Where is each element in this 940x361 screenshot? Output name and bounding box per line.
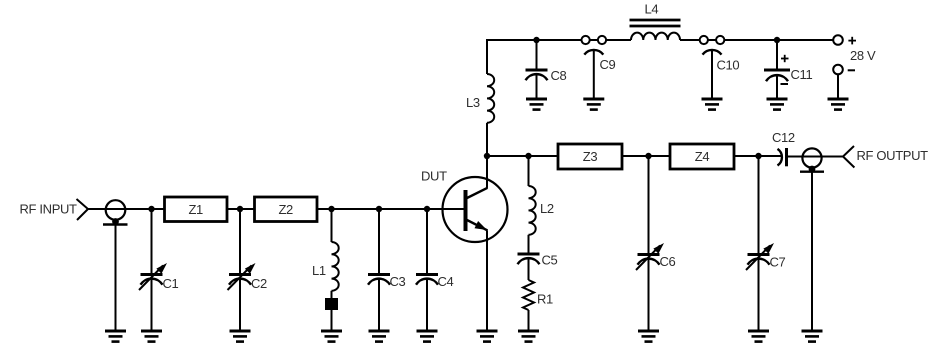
capacitor C12 (series blocking) [772,130,795,166]
wire: C7 branch lower [758,259,760,331]
impedance Z2 [255,197,318,222]
inductor L2 [529,186,554,235]
node: junction C11 / top rail [774,37,780,43]
inductor L4 with shield bars [630,2,681,41]
node: junction C4 branch [424,206,430,212]
node: junction C8 / top rail [533,37,539,43]
svg-text:C11: C11 [791,67,813,82]
ground: input probe [105,331,126,342]
svg-text:RF OUTPUT: RF OUTPUT [857,148,929,163]
ground: L1 [321,331,342,342]
capacitor C3 [368,274,406,289]
capacitor C7 (variable) [746,243,786,270]
node: junction L1 branch [328,206,334,212]
wire: output rail segment 2 [622,155,670,157]
svg-text:C2: C2 [251,276,267,291]
wire: C3 branch lower [378,279,380,331]
inductor L1 [312,242,339,291]
wire: C8 branch lower [536,74,538,99]
node: junction C7 branch [755,153,761,159]
ground: emitter [477,331,498,342]
node: junction C1 branch [148,206,154,212]
svg-text:C7: C7 [770,255,786,270]
capacitor C1 (variable) [139,263,179,291]
svg-text:RF INPUT: RF INPUT [20,201,78,216]
wire: C11 branch lower [776,76,778,99]
impedance Z1 [165,197,228,222]
node: junction L2 branch [525,153,531,159]
node: junction C6 branch [645,153,651,159]
svg-text:C8: C8 [551,68,567,83]
ferrite bead on L1 lead [325,298,338,310]
terminal: 28V negative [833,65,843,75]
wire: C2 branch upper [239,209,241,273]
svg-text:L3: L3 [466,95,480,110]
wire: ferrite bead to ground [331,310,333,331]
wire: C6 branch lower [648,259,650,331]
node: junction C2 branch [237,206,243,212]
ground: R1 [518,331,539,342]
capacitor C9 (feedthrough) [582,36,616,72]
wire: C1 branch upper [151,209,153,273]
ground: C7 [748,331,769,342]
capacitor C6 (variable) [636,243,676,270]
wire: C4 branch lower [426,279,428,331]
input probe (sampling connector) [103,200,128,225]
node: junction collector / L3 / output rail [484,153,490,159]
wire: C10 to ground [711,50,713,99]
svg-text:C9: C9 [600,57,616,72]
impedance Z3 [558,144,622,169]
node: junction C3 branch [376,206,382,212]
ground: C2 [230,331,251,342]
plus sign at positive terminal [848,37,856,45]
ground: output probe [802,331,823,342]
capacitor C4 [416,274,454,289]
svg-text:Z4: Z4 [695,149,710,164]
wire: collector rail segment 1 [487,155,558,157]
ground: C8 [526,99,547,110]
svg-text:L4: L4 [645,2,659,17]
svg-text:C12: C12 [772,130,795,145]
wire: C7 branch upper [758,156,760,253]
wire: L2 to C5 [528,235,530,253]
wire: C9 to ground [593,50,595,99]
svg-text:C1: C1 [163,276,179,291]
wire: C6 branch upper [648,156,650,253]
wire: L2 branch upper [528,156,530,186]
capacitor C11 (electrolytic, polarized) [764,55,812,84]
ground: C9 [583,99,604,110]
wire: C3 branch upper [378,209,380,273]
wire: C4 branch upper [426,209,428,273]
svg-text:28 V: 28 V [850,48,876,63]
impedance Z4 [670,144,734,169]
RF input connector arrow [77,199,89,220]
wire: input rail [88,208,464,210]
ground: C3 [369,331,390,342]
output probe (sampling connector) [800,148,824,172]
wire: emitter down to ground [486,230,488,330]
wire: top supply rail right segment [680,39,833,41]
svg-text:C4: C4 [438,274,454,289]
svg-text:C5: C5 [542,253,558,268]
wire: C5 to R1 [528,258,530,280]
wire: output probe to ground [811,172,813,331]
capacitor C10 (feedthrough) [700,36,740,73]
svg-text:Z1: Z1 [188,202,203,217]
ground: C1 [141,331,162,342]
wire: L3 vertical column (collector feed) [486,123,488,188]
svg-text:L2: L2 [540,201,554,216]
ground: C4 [417,331,438,342]
wire: C2 branch lower [239,279,241,331]
wire: input probe to ground [115,225,117,331]
svg-text:DUT: DUT [421,169,447,184]
svg-text:C10: C10 [717,58,740,73]
capacitor C8 [526,68,567,83]
wire: R1 to ground [528,310,530,331]
svg-text:Z2: Z2 [278,202,293,217]
wire: L1 to ferrite bead [331,291,333,298]
RF output connector arrow [843,146,854,168]
wire: output rail segment 3 [734,155,781,157]
wire: C1 branch lower [151,279,153,331]
wire: L1 branch upper [331,209,333,242]
svg-text:Z3: Z3 [583,149,598,164]
ground: C10 [702,99,723,110]
wire: top supply rail left segment with corner to L3 [487,40,631,74]
wire: collector up to output rail [486,156,488,188]
capacitor C5 [518,253,558,268]
transistor DUT (NPN) [421,169,508,242]
minus sign at negative terminal [848,69,855,71]
capacitor C2 (variable) [228,263,268,291]
svg-text:C3: C3 [390,274,406,289]
wire: C12 to output connector [788,156,843,158]
ground: negative terminal [828,99,849,110]
wire: C8 branch upper [536,40,538,69]
inductor L3 [466,74,494,123]
svg-text:L1: L1 [312,263,326,278]
wire: C11 branch upper [776,40,778,69]
resistor R1 [523,280,553,310]
ground: C11 [767,99,788,110]
terminal: +28V positive [833,35,843,45]
svg-text:C6: C6 [660,254,676,269]
wire: negative terminal to ground [837,74,839,98]
ground: C6 [638,331,659,342]
svg-text:R1: R1 [537,292,553,307]
